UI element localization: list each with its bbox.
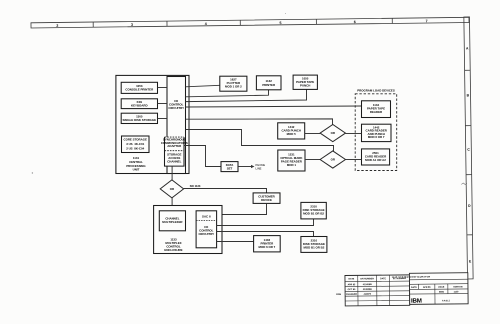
svg-text:DATE: DATE bbox=[348, 278, 354, 281]
svg-text:413605B: 413605B bbox=[363, 288, 372, 291]
title block left grid bbox=[345, 275, 410, 306]
wire I/O to 1134 reader bbox=[186, 106, 362, 107]
svg-text:SINGLE DISK STORAGE: SINGLE DISK STORAGE bbox=[123, 118, 157, 122]
svg-text:SET: SET bbox=[227, 167, 233, 171]
wire 1442 punch to OR bbox=[305, 133, 320, 135]
wire 1133 to 2310 disk storage 2 bbox=[217, 232, 314, 237]
box 1133 multiplex control enclosure bbox=[154, 206, 222, 254]
svg-text:MOD 1 OR 2: MOD 1 OR 2 bbox=[225, 84, 242, 88]
wire SCA to data set bbox=[184, 146, 221, 167]
box 1627 plotter bbox=[220, 76, 247, 91]
wire 1231 to OR bbox=[305, 159, 320, 161]
svg-text:A: A bbox=[466, 46, 469, 50]
svg-text:AA011: AA011 bbox=[442, 299, 451, 302]
svg-text:ENCLOSURE: ENCLOSURE bbox=[164, 248, 182, 252]
wire console printer to I/O bbox=[158, 87, 168, 89]
svg-text:READER: READER bbox=[370, 110, 383, 114]
svg-text:MOD B1 OR B2: MOD B1 OR B2 bbox=[303, 212, 324, 216]
box 1442 card reader and punch bbox=[362, 124, 392, 141]
box 2310 disk storage upper bbox=[301, 202, 326, 219]
wire I/O to 1055 punch bbox=[186, 89, 307, 101]
svg-text:APR 65: APR 65 bbox=[348, 283, 356, 286]
box 1442 card punch mod 5 bbox=[278, 123, 305, 139]
svg-text:CHANNEL: CHANNEL bbox=[167, 159, 181, 163]
dashed group program load devices bbox=[355, 94, 397, 171]
wire OR to customer device bbox=[184, 189, 267, 193]
box 1055 paper tape punch bbox=[293, 75, 317, 89]
svg-text:1130 SYSTEM CONFIGURATOR: 1130 SYSTEM CONFIGURATOR bbox=[392, 275, 431, 278]
svg-text:ADAPTER: ADAPTER bbox=[167, 144, 182, 148]
wire 1133 to 1403 printer bbox=[217, 241, 254, 243]
title block bbox=[336, 273, 468, 306]
wire keyboard to I/O bbox=[158, 103, 168, 105]
svg-text:CIRCUITRY: CIRCUITRY bbox=[198, 232, 214, 236]
or-diamond 1133 bbox=[160, 180, 183, 198]
svg-text:CIRCUITRY: CIRCUITRY bbox=[168, 106, 184, 110]
svg-text:3: 3 bbox=[131, 23, 133, 27]
box 2310 disk storage lower bbox=[301, 237, 327, 253]
svg-text:4: 4 bbox=[205, 22, 207, 26]
wire OR to channel multiplexer bbox=[171, 198, 173, 211]
or-diamond 2501 bbox=[320, 151, 345, 168]
box 2501 card reader bbox=[362, 149, 390, 165]
svg-text:6: 6 bbox=[354, 20, 356, 24]
right ruler strip bbox=[464, 17, 473, 279]
wire OR to 2501 bbox=[346, 159, 362, 161]
svg-text:EN NUMBER: EN NUMBER bbox=[361, 278, 375, 280]
svg-text:419875: 419875 bbox=[364, 293, 372, 296]
svg-text:C: C bbox=[467, 148, 470, 152]
wire disk storage to I/O bbox=[158, 118, 168, 120]
svg-text:MOD 5: MOD 5 bbox=[287, 132, 297, 136]
svg-text:MULTIPLEXER: MULTIPLEXER bbox=[162, 220, 183, 224]
svg-text:PHONE: PHONE bbox=[256, 163, 266, 167]
svg-text:PROGRAM LOAD DEVICES: PROGRAM LOAD DEVICES bbox=[357, 89, 395, 93]
wire I/O to 1627 plotter bbox=[186, 85, 220, 87]
box 1053 console printer bbox=[121, 82, 157, 93]
box 1132 printer bbox=[256, 76, 281, 90]
svg-text:MOD 6 OR 7: MOD 6 OR 7 bbox=[259, 245, 276, 249]
svg-text:NO 1133: NO 1133 bbox=[190, 184, 201, 188]
box 1403 printer bbox=[254, 236, 281, 252]
box customer device bbox=[253, 193, 280, 204]
svg-text:IBM: IBM bbox=[411, 298, 422, 305]
svg-text:D: D bbox=[468, 204, 471, 208]
svg-text:B: B bbox=[467, 93, 470, 97]
svg-text:DATE: DATE bbox=[411, 286, 417, 289]
svg-text:412456B: 412456B bbox=[363, 283, 372, 286]
svg-text:LINE: LINE bbox=[256, 167, 262, 171]
svg-text:UNIT: UNIT bbox=[133, 168, 140, 172]
svg-text:DATE: DATE bbox=[380, 277, 386, 280]
svg-text:7: 7 bbox=[426, 19, 428, 23]
svg-text:CHANGED: CHANGED bbox=[346, 293, 358, 296]
svg-text:APR 66: APR 66 bbox=[423, 286, 431, 289]
svg-text:2: 2 bbox=[56, 24, 58, 28]
divider SCA / storage access channel bbox=[165, 150, 185, 152]
box channel multiplexer bbox=[159, 211, 185, 231]
svg-text:1130: 1130 bbox=[454, 291, 460, 293]
wire 1133 to 2310 disk storage 1 bbox=[217, 219, 314, 226]
or-diamond 1442 bbox=[320, 125, 345, 142]
wire customer device to SAC II bbox=[217, 203, 267, 214]
box synchronous communications adapter / storage access channel bbox=[165, 137, 185, 166]
svg-text:RCB: RCB bbox=[336, 294, 341, 296]
wire I/O to OR diamond (2501) bbox=[186, 130, 334, 152]
box single disk storage bbox=[121, 113, 157, 123]
svg-text:MOD 1: MOD 1 bbox=[287, 163, 297, 167]
svg-text:EDITION: EDITION bbox=[454, 286, 463, 288]
pen squiggle mark bbox=[462, 183, 467, 184]
svg-text:DEVICE: DEVICE bbox=[261, 198, 272, 202]
svg-text:CORE STORAGE: CORE STORAGE bbox=[123, 138, 146, 142]
title block right part bbox=[409, 273, 468, 305]
speck bbox=[32, 172, 33, 173]
wire storage access channel to OR diamond bbox=[171, 166, 173, 180]
svg-text:PUNCH: PUNCH bbox=[300, 84, 310, 88]
svg-text:MOD A1 OR A2: MOD A1 OR A2 bbox=[365, 158, 386, 162]
svg-text:KEYBOARD: KEYBOARD bbox=[131, 103, 148, 107]
box data set bbox=[221, 162, 238, 172]
svg-text:OCT 65: OCT 65 bbox=[348, 289, 356, 291]
svg-text:CONSOLE PRINTER: CONSOLE PRINTER bbox=[125, 87, 154, 91]
svg-text:E: E bbox=[469, 259, 472, 263]
wire I/O to OR diamond (1442) bbox=[186, 119, 333, 125]
svg-text:MOD B1 OR B2: MOD B1 OR B2 bbox=[303, 246, 324, 250]
svg-text:SAC II: SAC II bbox=[202, 214, 211, 218]
svg-text:PAGE: PAGE bbox=[438, 286, 445, 289]
box 1231 optical mark page reader bbox=[278, 150, 305, 171]
box SAC II / I/O control circuitry bbox=[196, 211, 217, 248]
box I/O control circuitry (tall, inside CPU) bbox=[167, 77, 186, 174]
svg-text:3 US 4K-C01: 3 US 4K-C01 bbox=[126, 142, 144, 146]
svg-text:MOD 6 OR 7: MOD 6 OR 7 bbox=[368, 135, 385, 139]
wire data set to phone line (arrow) bbox=[238, 166, 251, 168]
box keyboard bbox=[121, 99, 157, 109]
svg-text:5: 5 bbox=[279, 21, 281, 25]
svg-text:9999: 9999 bbox=[439, 292, 445, 294]
wire OR to 1442 reader punch bbox=[346, 133, 362, 135]
box 1131 CPU outer enclosure bbox=[116, 75, 189, 173]
box 1134 paper tape reader bbox=[362, 101, 391, 118]
svg-text:2 US 8K-C04: 2 US 8K-C04 bbox=[126, 146, 144, 150]
box core storage bbox=[122, 136, 150, 153]
wire I/O to 1132 printer bbox=[186, 90, 269, 97]
top ruler strip bbox=[31, 17, 469, 28]
svg-text:PRINTER: PRINTER bbox=[262, 83, 276, 87]
